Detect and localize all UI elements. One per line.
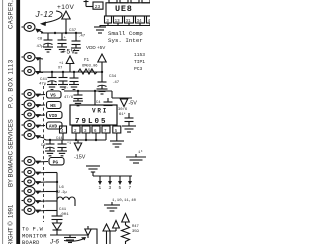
ground	[71, 48, 81, 53]
ground	[97, 89, 108, 94]
capacitor C45	[41, 140, 55, 151]
svg-text:-15V: -15V	[74, 155, 86, 161]
wire P11	[46, 181, 57, 183]
flag VS	[47, 91, 62, 99]
arrow from J-12 to pin	[44, 11, 62, 23]
svg-text:R47: R47	[132, 225, 139, 229]
connector pin P11	[22, 177, 36, 186]
filter spine wire	[56, 173, 58, 197]
svg-text:30/6: 30/6	[118, 107, 128, 112]
svg-text:1: 1	[99, 186, 102, 191]
+5V power flag	[62, 49, 76, 73]
svg-text:J-12: J-12	[35, 10, 54, 19]
arrow P13	[36, 200, 46, 203]
arrow to P3	[36, 71, 43, 74]
ground	[47, 85, 57, 90]
pin 13 box	[114, 16, 123, 24]
svg-text:X7: X7	[58, 67, 62, 71]
ground	[110, 141, 124, 147]
note text right	[134, 52, 145, 72]
label J-6	[49, 239, 59, 244]
label To FW monitor board	[22, 227, 47, 244]
pin 2 box	[72, 126, 80, 134]
wire P14	[46, 210, 57, 212]
connector pin P14	[22, 206, 36, 215]
label +1 X7	[58, 62, 63, 71]
wire pins to +5V rail	[40, 58, 102, 72]
capacitor C41	[39, 72, 57, 87]
ground	[45, 151, 55, 156]
ground	[69, 85, 79, 90]
connector pin P4	[22, 90, 36, 99]
capacitor C41b	[52, 208, 70, 220]
ground	[64, 235, 76, 243]
pin 34 box	[136, 16, 145, 24]
connector pin P6	[22, 110, 36, 119]
svg-text:PC3: PC3	[134, 66, 143, 72]
connector pin P1	[22, 23, 36, 32]
connector pin P10	[22, 168, 36, 177]
connector row bus	[93, 175, 132, 177]
-15V rail	[44, 139, 106, 140]
label 30/6	[118, 107, 128, 117]
svg-text:RIGHT © 1991: RIGHT © 1991	[8, 204, 15, 244]
svg-text:PG: PG	[53, 159, 59, 165]
resistor R47	[122, 225, 140, 244]
wire bracket right	[110, 231, 116, 244]
wire above VR1	[64, 90, 112, 92]
svg-text:+10V: +10V	[57, 4, 75, 11]
arrow P9	[36, 161, 48, 164]
svg-text:-5V: -5V	[129, 101, 138, 107]
svg-text:C8: C8	[38, 38, 43, 42]
-5V power flag	[120, 98, 137, 107]
svg-text:23: 23	[95, 4, 101, 10]
svg-text:C4: C4	[41, 144, 45, 148]
capacitor C43	[96, 98, 113, 106]
pin 23 box	[93, 2, 103, 10]
svg-text:1,10,11,40: 1,10,11,40	[112, 199, 137, 203]
sheet edge black bar	[16, 0, 20, 244]
wire to pin 23	[84, 0, 94, 7]
svg-text:47/6: 47/6	[64, 95, 74, 100]
svg-text:C37: C37	[69, 29, 77, 33]
svg-text:5A: 5A	[88, 69, 93, 73]
capacitor C40	[58, 33, 67, 47]
svg-text:VRI: VRI	[92, 108, 108, 115]
svg-text:79L05: 79L05	[75, 118, 108, 126]
svg-text:.47: .47	[78, 35, 86, 39]
power triangle R47	[122, 214, 130, 226]
bottom wire	[50, 234, 88, 236]
arrow P6	[36, 114, 45, 117]
inductor L6	[57, 186, 75, 206]
connector pin P2	[22, 53, 36, 62]
svg-text:+1: +1	[59, 62, 63, 66]
connector pin P12	[22, 187, 36, 196]
svg-text:47µ: 47µ	[39, 83, 47, 87]
connector pin P5	[22, 100, 36, 109]
pin 7 box	[102, 126, 110, 134]
svg-text:13: 13	[115, 20, 121, 24]
svg-text:C34: C34	[109, 75, 117, 79]
VDD +5V flag	[86, 45, 106, 82]
svg-text:VID: VID	[49, 113, 58, 119]
capacitor C30	[125, 113, 134, 126]
capacitor C38	[59, 72, 68, 85]
pin5 ground stem	[116, 133, 118, 141]
svg-text:C·: C·	[64, 87, 69, 91]
arrow to P1	[36, 29, 43, 33]
capacitor C37	[69, 29, 86, 48]
svg-text:C44: C44	[56, 137, 62, 141]
label J-12	[35, 10, 54, 19]
svg-text:BY BOMARC SERVICES: BY BOMARC SERVICES	[9, 119, 15, 187]
pin 5 box	[113, 126, 121, 134]
svg-text:BOARD: BOARD	[22, 240, 40, 244]
IC UE8	[106, 3, 154, 16]
svg-text:VS: VS	[50, 93, 56, 99]
arrow P10	[36, 172, 46, 175]
arrow P5	[36, 104, 45, 107]
svg-text:C41: C41	[59, 208, 67, 212]
connector pin P9	[22, 157, 36, 166]
wire P12	[46, 191, 57, 193]
connector pin P7	[22, 121, 36, 130]
wire right of VR1	[112, 97, 132, 99]
svg-text:AVD: AVD	[49, 124, 58, 130]
power triangle left small	[113, 221, 120, 232]
arrow P11	[36, 181, 46, 184]
svg-text:J-6: J-6	[49, 239, 59, 244]
faint pin list text	[112, 199, 137, 203]
arrow P12	[36, 191, 46, 194]
capacitor C39	[70, 72, 79, 85]
svg-text:*1: *1	[67, 141, 71, 146]
svg-text:TIP1: TIP1	[134, 59, 145, 65]
svg-text:5: 5	[119, 186, 122, 191]
ground	[122, 126, 136, 132]
svg-text:P.O. BOX 1113: P.O. BOX 1113	[9, 59, 15, 108]
wire spine lower	[56, 196, 58, 216]
svg-text:Sys. Inter: Sys. Inter	[108, 37, 143, 44]
wire +10V rail	[41, 32, 82, 34]
arrow P8	[36, 136, 44, 138]
fuse F1	[78, 59, 98, 74]
wire P13	[46, 200, 57, 202]
svg-text:Small Comp: Small Comp	[108, 30, 143, 37]
ground	[58, 85, 68, 90]
diode D1	[53, 220, 62, 236]
flag PG	[49, 158, 64, 166]
svg-text:35Ω: 35Ω	[132, 230, 140, 234]
svg-text:VDD +5V: VDD +5V	[86, 45, 106, 50]
+10V power flag	[57, 4, 75, 33]
wire bracket bottom	[91, 229, 97, 244]
svg-text:F1: F1	[84, 59, 90, 63]
svg-text:34: 34	[137, 20, 143, 24]
flag AVD	[47, 122, 63, 130]
UE8 top pin boxes (cut)	[109, 0, 150, 3]
capacitor C34	[98, 75, 120, 89]
arrow P7	[36, 125, 45, 128]
voltage regulator VR1	[70, 105, 117, 126]
label Small Computer	[108, 30, 143, 44]
arrow J-6	[64, 239, 84, 242]
pin 41 box	[147, 16, 156, 24]
pin 3 box	[105, 16, 112, 24]
copyright text (rotated)	[8, 0, 15, 244]
-15V power flag	[74, 140, 86, 161]
node 1 ground	[126, 149, 146, 163]
svg-text:.47: .47	[112, 81, 120, 85]
connector pin P3	[22, 67, 36, 76]
svg-text:31: 31	[126, 20, 132, 24]
ground mid right	[86, 166, 100, 176]
svg-text:HS: HS	[50, 103, 56, 109]
svg-text:C41: C41	[40, 78, 48, 82]
svg-text:6M03.06: 6M03.06	[82, 65, 98, 69]
capacitor C8	[37, 33, 53, 49]
svg-text:2.2µ: 2.2µ	[58, 191, 67, 195]
ground bus UE8	[100, 23, 150, 27]
ground	[73, 101, 83, 106]
svg-text:7: 7	[129, 186, 132, 191]
ground	[94, 27, 106, 33]
capacitor C42	[64, 87, 83, 101]
capacitor C44	[56, 137, 71, 151]
arrow to P2	[36, 58, 43, 59]
node dots rail A	[54, 32, 77, 34]
svg-text:L6: L6	[59, 186, 64, 190]
wire P10	[46, 172, 57, 174]
svg-text:MONITOR: MONITOR	[22, 234, 47, 240]
pin 3 box	[82, 126, 90, 134]
svg-text:3: 3	[109, 186, 112, 191]
stem into VR1	[94, 91, 96, 105]
arrow P4	[36, 94, 45, 97]
pin 31 box	[125, 16, 134, 24]
flag VID	[47, 112, 63, 120]
svg-text:+5V: +5V	[62, 49, 76, 56]
connector pin stubs 1 3 5 7	[98, 176, 102, 191]
svg-text:To F.W: To F.W	[22, 227, 44, 233]
ground	[43, 47, 53, 52]
arrow P14	[36, 210, 46, 213]
page border thin line	[2, 0, 4, 244]
svg-text:61*: 61*	[119, 112, 126, 117]
svg-text:CASPER,: CASPER,	[9, 0, 15, 29]
cable dashed line	[43, 86, 45, 222]
ground	[57, 47, 67, 52]
power triangle bottom mid	[103, 224, 110, 244]
svg-text:1153: 1153	[134, 52, 145, 58]
connector pin P13	[22, 196, 36, 205]
down arrow flag	[85, 226, 91, 238]
svg-text:UE8: UE8	[115, 4, 133, 14]
pin 4 box	[60, 126, 67, 134]
ground bottom right	[104, 202, 120, 211]
pin 6 box	[92, 126, 100, 134]
ground	[57, 151, 67, 156]
connector pin P8	[22, 131, 36, 140]
flag HS	[47, 102, 62, 110]
pin stems to rail	[75, 133, 77, 140]
